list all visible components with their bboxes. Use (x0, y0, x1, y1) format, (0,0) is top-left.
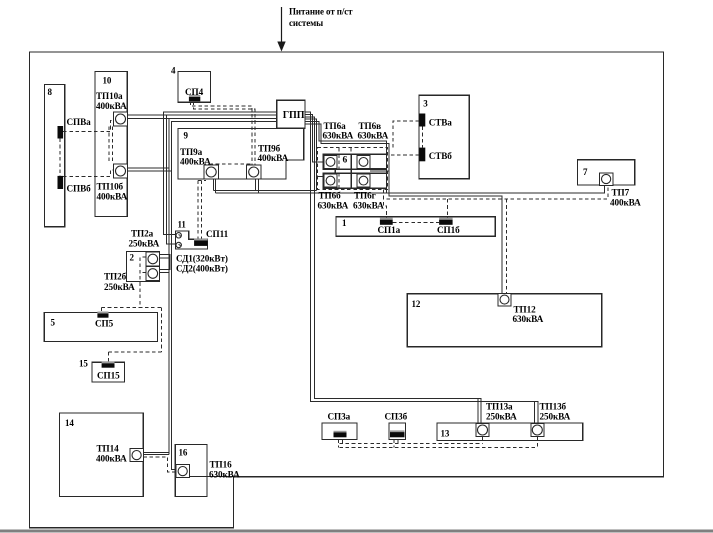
svg-text:СП1а: СП1а (378, 225, 401, 235)
svg-text:15: 15 (79, 359, 88, 369)
svg-text:ТП13б: ТП13б (540, 402, 567, 412)
transformer ТП2а (146, 252, 160, 266)
wire bus right 2 (to ТП6а) (305, 114, 323, 162)
svg-text:СПВа: СПВа (67, 117, 92, 127)
node СП4 bar (189, 95, 200, 97)
wire ТП10б link (128, 168, 172, 171)
svg-text:400кВА: 400кВА (96, 454, 127, 464)
wire dashed ТП10а-ТП10б (109, 127, 113, 164)
node СП1б (439, 218, 453, 220)
svg-text:СП11: СП11 (206, 229, 229, 239)
svg-text:16: 16 (179, 448, 188, 458)
block 15 (92, 362, 125, 382)
svg-text:СД2(400кВт): СД2(400кВт) (176, 263, 228, 273)
wire dashed СПВа-ТП10а (63, 121, 113, 132)
svg-text:ТП6б: ТП6б (319, 191, 342, 201)
svg-text:СП3а: СП3а (328, 412, 351, 422)
wire ring main (outer border loop through ТП16) (30, 52, 664, 528)
svg-text:ТП9б: ТП9б (258, 144, 281, 154)
block 14 (60, 413, 144, 497)
svg-text:630кВА: 630кВА (353, 200, 384, 210)
svg-text:ТП2а: ТП2а (131, 229, 154, 239)
wire dashed СП1а (384, 190, 387, 220)
svg-text:250кВА: 250кВА (540, 412, 571, 422)
node: Питание от п/ст системы (289, 7, 353, 29)
node СП5 bar (97, 312, 108, 314)
svg-text:ТП9а: ТП9а (180, 147, 203, 157)
transformer ТП12 (498, 294, 511, 306)
svg-text:5: 5 (51, 318, 56, 328)
wire block6 outputs (370, 169, 389, 171)
svg-text:ТП16: ТП16 (210, 460, 233, 470)
svg-text:ТП10а: ТП10а (96, 91, 123, 101)
block 13 (437, 423, 583, 440)
wire bus right 3 (to ТП13а) (305, 117, 481, 424)
transformer ТП6а (324, 156, 337, 169)
svg-text:11: 11 (178, 220, 187, 230)
block 11 (176, 231, 208, 249)
block 10 (95, 72, 127, 217)
wire ТП9б drop (255, 179, 258, 193)
node СП1а (380, 218, 393, 220)
svg-text:СП1б: СП1б (437, 225, 460, 235)
svg-text:ТП14: ТП14 (97, 444, 120, 454)
svg-text:ТП7: ТП7 (612, 188, 630, 198)
svg-text:СП15: СП15 (97, 371, 120, 381)
wire bus left 2 (167, 115, 277, 244)
block 9 (178, 128, 304, 179)
svg-text:9: 9 (184, 131, 189, 141)
wire dashed ТП12 (505, 199, 507, 294)
wire bus left 3 (169, 118, 277, 454)
transformer ТП9б (247, 165, 262, 179)
wire dashed СТВа-СТВб (421, 127, 423, 148)
wire dashed СП1б (446, 199, 448, 220)
wire dashed СПВб-ТП10б (63, 170, 113, 177)
svg-text:ГПП: ГПП (283, 110, 305, 121)
block 5 (44, 313, 157, 342)
node junction box (160, 255, 171, 270)
wire dashed СТВб (388, 154, 420, 156)
transformer ТП6б (324, 174, 337, 187)
svg-text:13: 13 (441, 429, 450, 439)
wire ТП9а drop (214, 179, 216, 193)
block 8 (44, 84, 64, 226)
svg-text:4: 4 (171, 66, 176, 76)
transformer ТП6в (357, 156, 370, 169)
svg-text:1: 1 (342, 218, 347, 228)
node block 6 section coupling (335, 154, 351, 188)
wire corridor upper (214, 189, 317, 191)
wire dashed ТП14-ТП16 (143, 457, 176, 472)
block 2 (127, 252, 160, 282)
wire dashed СП1а-СП1б (393, 221, 439, 223)
supply arrow (277, 7, 285, 52)
svg-text:12: 12 (412, 299, 421, 309)
transformer ТП16 (176, 465, 189, 478)
transformer ТП10а (114, 112, 128, 126)
svg-text:630кВА: 630кВА (318, 200, 349, 210)
svg-text:630кВА: 630кВА (209, 470, 240, 480)
svg-text:ТП6г: ТП6г (354, 191, 376, 201)
wire dashed long (СП1б ТП12 ТП7) (387, 188, 608, 200)
svg-text:СТВб: СТВб (429, 151, 453, 161)
svg-text:14: 14 (65, 418, 74, 428)
wire ТП10а link (128, 115, 170, 118)
svg-text:СПВб: СПВб (67, 184, 92, 194)
svg-text:400кВА: 400кВА (258, 153, 289, 163)
transformer ТП9а (204, 165, 219, 179)
wire dashed ТП9а-СП4 link (211, 164, 252, 166)
node СП3б (389, 423, 406, 440)
svg-text:400кВА: 400кВА (96, 101, 127, 111)
wire bus left 1 (164, 112, 277, 234)
svg-text:10: 10 (103, 76, 112, 86)
svg-text:630кВА: 630кВА (513, 314, 544, 324)
svg-text:ТП6а: ТП6а (324, 121, 347, 131)
wire dashed СП4-ТП9б (191, 101, 256, 165)
wire ТП2 taps (160, 258, 169, 273)
block 16 (175, 445, 207, 497)
wire dashed ТП2-СП5 (102, 257, 162, 363)
svg-text:Питание от п/ст: Питание от п/ст (289, 7, 353, 17)
wire dashed ТП9а-СП11 (198, 181, 206, 239)
transformer ТП14 (130, 449, 143, 462)
block 7 (577, 160, 634, 185)
svg-text:ТП10б: ТП10б (97, 182, 124, 192)
svg-text:250кВА: 250кВА (486, 412, 517, 422)
transformer ТП13б (531, 424, 544, 437)
block 3 (419, 95, 469, 179)
node СТВб (419, 148, 425, 162)
svg-text:7: 7 (583, 167, 588, 177)
wire bus right 1 (to ТП13б) (305, 112, 538, 424)
node motor tap СД1 (176, 233, 181, 238)
wire dashed СТВа (393, 121, 419, 148)
svg-text:2: 2 (130, 253, 135, 263)
wire ТП14 taps (143, 452, 169, 454)
wire dashed block6 inner (339, 148, 351, 189)
node motor tap СД2 (176, 242, 181, 247)
svg-text:ТП2б: ТП2б (104, 272, 127, 282)
svg-text:СД1(320кВт): СД1(320кВт) (176, 254, 228, 264)
svg-text:системы: системы (289, 18, 323, 28)
transformer ТП2б (146, 267, 160, 281)
transformer ТП7 (600, 173, 613, 186)
transformer ТП6г (357, 174, 370, 187)
block 1 (336, 217, 495, 237)
wire corridor lower (to ТП7) (216, 186, 605, 193)
svg-text:3: 3 (423, 99, 428, 109)
svg-text:ТП6в: ТП6в (359, 121, 382, 131)
wire dashed СПВа-СПВб (59, 139, 61, 176)
node СТВа (419, 114, 425, 127)
svg-text:8: 8 (48, 87, 53, 97)
node СПВб (58, 176, 64, 189)
svg-text:630кВА: 630кВА (358, 131, 389, 141)
node СП3а (322, 423, 357, 440)
svg-text:250кВА: 250кВА (129, 238, 160, 248)
block 12 (407, 294, 602, 347)
svg-text:250кВА: 250кВА (104, 282, 135, 292)
node: page bottom rule (0, 530, 713, 533)
wire feeder ТП12 from ГПП (305, 124, 502, 294)
wire bus left 4 (172, 122, 277, 470)
block 4 (178, 72, 210, 103)
transformer ТП10б (114, 164, 128, 178)
svg-text:СП3б: СП3б (385, 412, 408, 422)
svg-text:6: 6 (343, 156, 348, 166)
wire feeder ТП7 from ГПП (305, 122, 387, 193)
node СП15 bar (102, 361, 115, 363)
svg-text:630кВА: 630кВА (323, 131, 354, 141)
svg-text:400кВА: 400кВА (97, 191, 128, 201)
svg-text:СТВа: СТВа (429, 118, 453, 128)
node СПВа (58, 126, 64, 139)
op ГПП (277, 100, 305, 128)
svg-text:СП5: СП5 (95, 319, 114, 329)
transformer ТП13а (476, 424, 489, 437)
svg-text:ТП13а: ТП13а (486, 402, 513, 412)
svg-text:400кВА: 400кВА (610, 198, 641, 208)
node СП11 bar (194, 239, 208, 241)
wire bus right 4 (to ТП6б) (305, 119, 323, 190)
block 6 dashed frame (318, 148, 388, 190)
wire dashed ТП13 bottom (339, 437, 538, 448)
block 6 busbar top (323, 154, 386, 169)
block 6 busbar bottom (323, 173, 386, 188)
